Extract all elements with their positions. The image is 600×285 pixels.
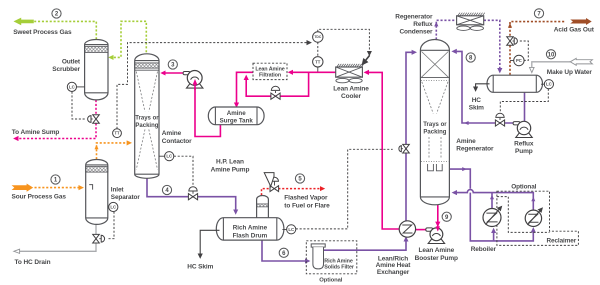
svg-text:Pump: Pump: [515, 148, 533, 155]
signal: flash drum LC to feed valve: [296, 149, 393, 229]
wire: regenerator overhead to reflux condenser (dashed): [436, 20, 456, 39]
svg-text:LC: LC: [288, 227, 294, 232]
svg-text:Sweet Process Gas: Sweet Process Gas: [13, 29, 72, 36]
svg-text:Packing: Packing: [423, 130, 446, 136]
svg-text:Trays or: Trays or: [423, 122, 447, 128]
svg-text:Packing: Packing: [135, 123, 158, 129]
stream arrow: Make Up Water: [570, 58, 592, 65]
node: stream 4: [162, 185, 171, 194]
pump: Reflux Pump: [516, 133, 532, 137]
svg-text:Condenser: Condenser: [399, 29, 433, 36]
wire: HP pump discharge to contactor top: [165, 72, 185, 74]
vessel: Amine Regenerator: [420, 40, 449, 205]
svg-text:LC: LC: [166, 154, 172, 159]
svg-text:Lean Amine: Lean Amine: [418, 247, 454, 254]
vessel: Rich Amine Flash Drum: [216, 218, 284, 240]
vessel: Outlet Scrubber: [85, 40, 108, 100]
valve: regenerator feed LV: [403, 144, 410, 153]
svg-text:Rich Amine: Rich Amine: [324, 258, 353, 264]
instrument: TDC: [313, 32, 323, 42]
signal: reflux drum LC to reflux valve: [500, 89, 548, 113]
wire: filtration bypass with valve: [246, 72, 308, 96]
contactor internals X: [136, 72, 157, 170]
svg-text:Cooler: Cooler: [341, 93, 362, 100]
node: stream 1: [51, 175, 60, 184]
wire: reflux drum to reflux pump: [524, 92, 526, 121]
pump: H.P. Lean Amine Pump: [187, 84, 203, 88]
svg-text:Skim: Skim: [469, 105, 484, 112]
wire: reboiler/reclaimer vapor return to regenerator: [456, 190, 533, 211]
svg-text:Booster Pump: Booster Pump: [415, 255, 458, 262]
signal: TDC to cooler louver: [318, 29, 370, 52]
box: Lean Amine Filtration: [253, 63, 287, 79]
wire: cooler outlet to filtration: [292, 71, 336, 73]
air cooler: Lean Amine Cooler: [337, 64, 364, 67]
svg-text:Acid Gas Out: Acid Gas Out: [554, 26, 595, 33]
wire: reflux pump discharge to regenerator top: [456, 51, 514, 123]
svg-text:Flashed Vapor: Flashed Vapor: [284, 195, 328, 202]
wire: separator liquid to HC drain: [20, 224, 96, 251]
node: stream 10: [546, 50, 555, 59]
instrument: PC acid gas: [514, 55, 524, 65]
wire: reflux drum HC skim: [476, 84, 490, 88]
node: stream 6: [279, 248, 288, 257]
pump: Lean Amine Booster Pump: [428, 239, 444, 243]
instrument: TT contactor: [113, 129, 122, 138]
svg-text:Lean Amine: Lean Amine: [255, 66, 284, 72]
svg-text:TT: TT: [114, 131, 120, 136]
svg-text:Reboiler: Reboiler: [471, 246, 497, 253]
instrument: TT cooler outlet: [313, 57, 323, 67]
wire: separator overhead to contactor: [97, 143, 128, 159]
signal: separator LC to drain valve: [108, 212, 114, 239]
svg-text:Separator: Separator: [111, 194, 141, 201]
svg-text:10: 10: [548, 53, 555, 59]
wire: regenerator side draw to reboiler/reclaimer bottoms: [450, 169, 534, 241]
wire: contactor bottoms to flash drum: [147, 178, 236, 210]
vessel: reflux accumulator drum: [487, 75, 542, 92]
svg-text:Amine: Amine: [227, 110, 246, 117]
instrument: LC inlet separator: [109, 202, 118, 211]
signal: louver arrow: [365, 55, 369, 60]
svg-text:Contactor: Contactor: [162, 138, 192, 145]
signal: contactor TT to TDC: [117, 43, 308, 129]
wire: solids filter outlet to HX bottom: [324, 241, 406, 251]
node: stream 5: [295, 174, 304, 183]
wire: reboiler bottom tap: [493, 232, 495, 241]
wire hop mask: [466, 189, 474, 193]
signal: acid gas valve to PC: [520, 41, 529, 60]
wire: condenser outlet to reflux drum (dashed): [484, 20, 500, 69]
instrument: LC amine contactor: [165, 152, 174, 161]
heat exchanger: Lean/Rich Amine Heat Exchanger: [399, 221, 415, 237]
wire: surge tank to HP pump suction: [195, 84, 220, 137]
signal: scrubber LC to sump valve: [72, 92, 85, 119]
valve: filtration bypass PV: [275, 91, 277, 93]
node: stream 2: [52, 9, 61, 18]
wire: lean/rich HX to cooler: [368, 72, 399, 229]
valve: acid gas PV: [507, 37, 514, 46]
svg-text:Reflux: Reflux: [413, 21, 433, 28]
svg-text:LC: LC: [110, 205, 116, 210]
box: Rich Amine Solids Filter (Optional): [306, 241, 357, 274]
signal: contactor LC to rich amine valve: [174, 156, 193, 191]
wire: sour gas to inlet separator: [35, 187, 80, 189]
valve: flash drum vapor PV: [270, 186, 279, 192]
svg-text:To Amine Sump: To Amine Sump: [12, 129, 60, 136]
svg-text:TDC: TDC: [314, 35, 322, 39]
svg-text:Outlet: Outlet: [62, 58, 81, 65]
node: stream 7: [534, 9, 543, 18]
svg-text:Optional: Optional: [511, 183, 536, 190]
svg-text:to Fuel or Flare: to Fuel or Flare: [284, 203, 330, 210]
valve: contactor rich amine LV: [192, 192, 194, 194]
svg-text:Optional: Optional: [319, 277, 343, 283]
wire: regenerator bottoms to booster pump: [437, 205, 439, 223]
wire: flash drum bottoms to solids filter: [262, 240, 306, 261]
svg-text:Amine: Amine: [162, 130, 182, 137]
wire: filtration outlet to surge tank: [237, 72, 254, 103]
instrument: LC reflux drum: [544, 80, 553, 89]
svg-text:To HC Drain: To HC Drain: [15, 259, 51, 266]
svg-text:Regenerator: Regenerator: [456, 146, 494, 153]
instrument: LC flash drum: [287, 225, 296, 234]
svg-text:PC: PC: [516, 58, 522, 63]
svg-text:Filtration: Filtration: [259, 73, 281, 79]
svg-text:Make Up Water: Make Up Water: [547, 69, 593, 76]
svg-text:Inlet: Inlet: [111, 186, 125, 193]
valve: scrubber bottoms LV (to amine sump): [93, 115, 100, 124]
regenerator internals: [422, 52, 449, 78]
svg-text:Surge Tank: Surge Tank: [220, 117, 254, 124]
svg-text:Exchanger: Exchanger: [377, 269, 410, 276]
svg-text:H.P. Lean: H.P. Lean: [216, 159, 244, 166]
vessel: Amine Surge Tank: [208, 107, 264, 125]
heat exchanger: Reboiler: [483, 209, 501, 227]
valve: reflux LV: [499, 118, 501, 120]
svg-text:Rich Amine: Rich Amine: [233, 224, 268, 231]
svg-text:LC: LC: [546, 82, 552, 87]
node: stream 3: [168, 60, 177, 69]
wire: HX top through valve to regenerator feed: [406, 52, 413, 221]
svg-text:HC Skim: HC Skim: [187, 263, 213, 270]
svg-text:Solids Filter: Solids Filter: [324, 265, 355, 271]
svg-text:Flash Drum: Flash Drum: [233, 233, 268, 240]
separator feed baffle: [89, 185, 92, 190]
wire: reflux drum overhead acid gas: [510, 22, 566, 75]
wire: HP pump suction arrow overlay: [194, 85, 196, 91]
filter: Rich Amine Solids Filter: [311, 244, 325, 247]
svg-text:Reclaimer: Reclaimer: [546, 238, 576, 245]
air cooler: Regenerator Reflux Condenser: [458, 13, 485, 16]
svg-text:LC: LC: [69, 84, 75, 89]
vessel: Inlet Separator: [86, 160, 108, 225]
heat exchanger: Reclaimer: [525, 210, 541, 226]
wire: contactor overhead to scrubber inlet: [113, 21, 147, 57]
wire: flash drum HC skim: [200, 230, 219, 254]
wire: booster pump discharge to HX: [416, 229, 426, 231]
signal: TDC to TT link: [317, 42, 319, 56]
flash drum boot: [257, 196, 269, 219]
wire: sweet gas from scrubber top to outlet arrow: [34, 21, 96, 39]
wire: flash drum boot to fuel/flare: [262, 189, 321, 196]
stream arrow: Sweet Process Gas: [14, 18, 34, 26]
node: stream 8: [466, 53, 475, 62]
svg-text:Reflux: Reflux: [514, 140, 534, 147]
wire: booster pump suction arrow overlay: [437, 222, 439, 230]
instrument: LC outlet scrubber: [67, 82, 76, 91]
box: Reclaimer Optional: [497, 191, 579, 245]
vessel: Amine Contactor: [135, 54, 159, 179]
svg-text:Amine Pump: Amine Pump: [211, 166, 250, 173]
stream arrow: Acid Gas Out: [570, 18, 591, 25]
svg-text:Regenerator: Regenerator: [395, 13, 433, 20]
svg-text:Scrubber: Scrubber: [52, 66, 80, 73]
svg-text:Sour Process Gas: Sour Process Gas: [12, 194, 67, 201]
svg-text:Trays or: Trays or: [135, 116, 159, 122]
svg-text:Lean Amine: Lean Amine: [333, 85, 369, 92]
valve: separator drain LV: [93, 234, 100, 243]
svg-text:Amine: Amine: [456, 138, 476, 145]
svg-text:HC: HC: [472, 97, 482, 104]
svg-text:TT: TT: [315, 59, 321, 64]
wire: make up water: [532, 62, 570, 67]
stream arrow: Sour Process Gas: [12, 184, 34, 192]
wire: To Amine Sump (dashed magenta): [18, 100, 97, 139]
node: stream 9: [442, 212, 451, 221]
